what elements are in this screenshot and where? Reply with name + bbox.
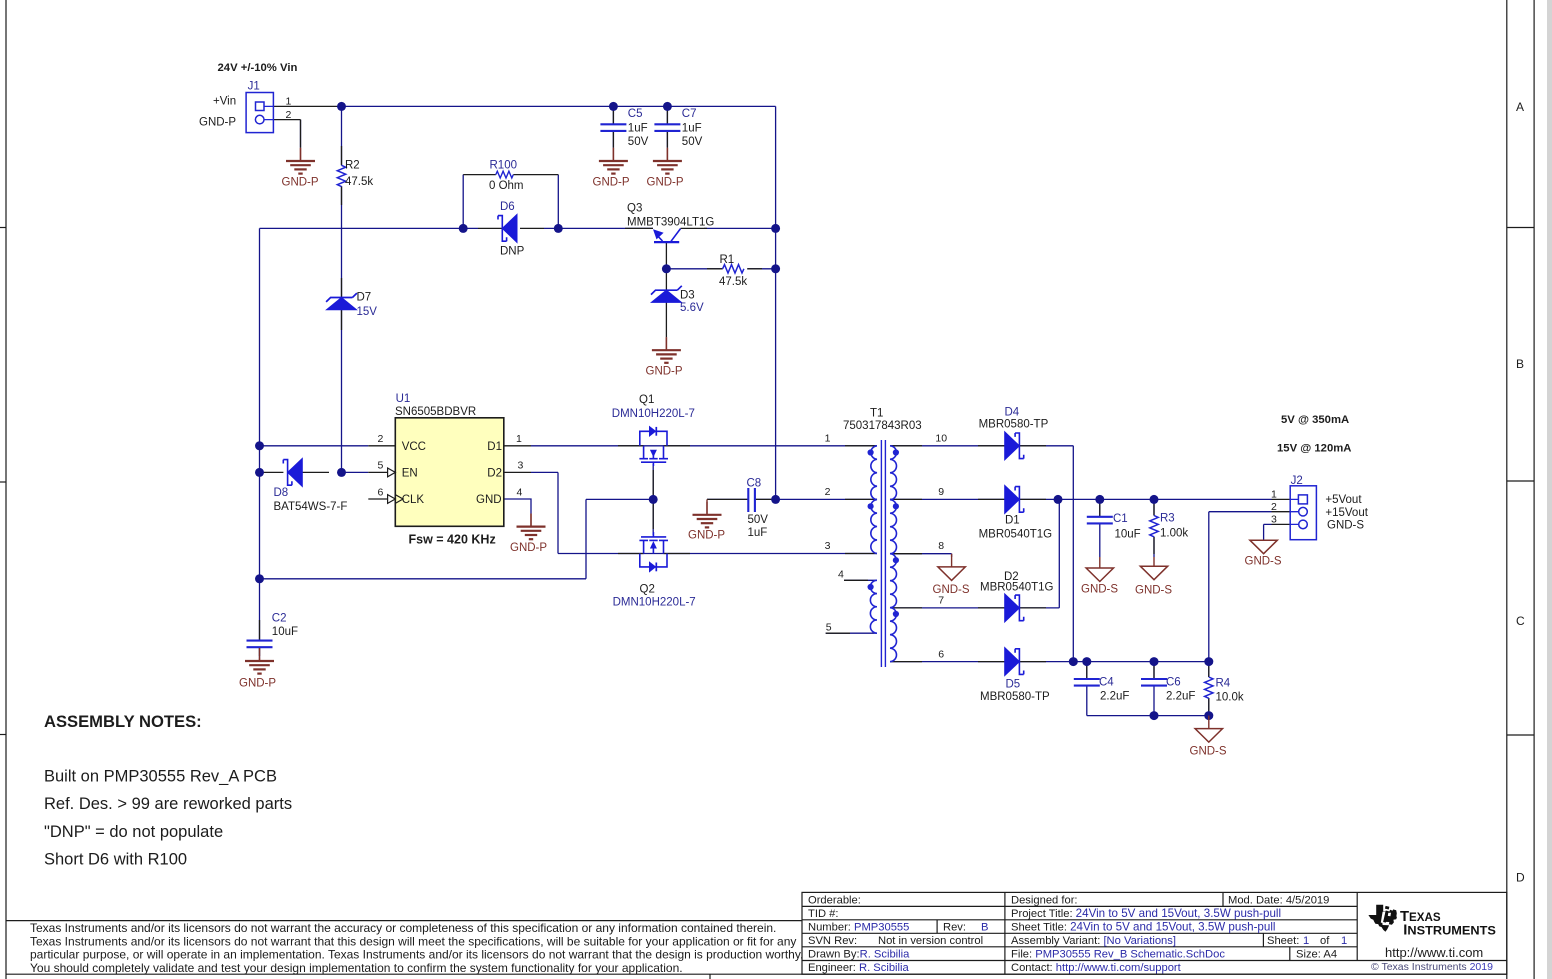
svg-text:Engineer: R. Scibilia: Engineer: R. Scibilia bbox=[808, 962, 910, 974]
svg-text:GND-P: GND-P bbox=[646, 366, 683, 378]
svg-text:Fsw = 420 KHz: Fsw = 420 KHz bbox=[409, 533, 496, 547]
svg-text:2: 2 bbox=[825, 486, 831, 498]
T1 primary winding 1-2-3 bbox=[871, 446, 877, 554]
junction R4 at 15V net bbox=[1204, 657, 1213, 666]
svg-text:1: 1 bbox=[1271, 488, 1277, 500]
svg-text:4: 4 bbox=[838, 569, 844, 581]
ground GND-P at J1 bbox=[282, 148, 319, 189]
svg-text:Contact: http://www.ti.com/sup: Contact: http://www.ti.com/support bbox=[1011, 962, 1182, 974]
svg-text:1.00k: 1.00k bbox=[1160, 528, 1188, 540]
svg-text:D5: D5 bbox=[1006, 679, 1021, 691]
svg-text:15V @ 120mA: 15V @ 120mA bbox=[1277, 442, 1351, 454]
svg-text:Number: PMP30555: Number: PMP30555 bbox=[808, 921, 909, 933]
wire C8 row to T1 pin2 bbox=[707, 498, 877, 500]
svg-text:GND-P: GND-P bbox=[593, 176, 630, 188]
svg-text:1: 1 bbox=[286, 96, 292, 108]
svg-text:MBR0580-TP: MBR0580-TP bbox=[979, 418, 1049, 430]
transformer T1 bbox=[870, 440, 896, 667]
row line 4 bbox=[802, 946, 1357, 948]
svg-text:particular purpose, or will op: particular purpose, or will operate in a… bbox=[30, 948, 803, 962]
svg-text:GND-P: GND-P bbox=[510, 542, 547, 554]
svg-text:8: 8 bbox=[938, 540, 944, 552]
svg-text:750317843R03: 750317843R03 bbox=[843, 420, 922, 432]
diode D6 (DNP) bbox=[498, 201, 525, 258]
wire C4 leads bbox=[1086, 662, 1088, 716]
pin J1-1 bbox=[273, 105, 341, 107]
svg-text:10uF: 10uF bbox=[1115, 529, 1141, 541]
junction Q3 collector at +24V rail bbox=[771, 224, 780, 233]
svg-text:3: 3 bbox=[825, 540, 831, 552]
capacitor C8 bbox=[747, 478, 769, 540]
Size cell divider bbox=[1289, 947, 1291, 961]
pin D2 leads bbox=[978, 607, 1046, 609]
svg-text:Q1: Q1 bbox=[639, 394, 654, 406]
transistor Q3 bbox=[627, 202, 714, 242]
svg-text:A: A bbox=[1516, 100, 1524, 114]
diode D1 bbox=[979, 485, 1053, 540]
pin U1 D2 bbox=[504, 471, 531, 473]
resistor R1 bbox=[719, 254, 747, 288]
right zone tick A/B bbox=[1507, 227, 1534, 229]
svg-text:3: 3 bbox=[1271, 514, 1277, 526]
wire D2 cathode riser bbox=[1019, 499, 1059, 608]
svg-text:7: 7 bbox=[938, 595, 944, 607]
svg-text:Built on PMP30555 Rev_A PCB: Built on PMP30555 Rev_A PCB bbox=[44, 768, 277, 786]
svg-text:5: 5 bbox=[826, 622, 832, 634]
left border line bbox=[5, 0, 7, 979]
svg-text:ASSEMBLY NOTES:: ASSEMBLY NOTES: bbox=[44, 712, 202, 731]
wire T1 pin5 stub bbox=[826, 632, 877, 634]
junction D4 riser at 15V net bbox=[1069, 657, 1078, 666]
svg-text:C4: C4 bbox=[1099, 677, 1114, 689]
row line 2 bbox=[802, 919, 1357, 921]
svg-text:GND-S: GND-S bbox=[1190, 745, 1227, 757]
zener diode D7 bbox=[326, 292, 377, 318]
junction D6 cathode/R100 bbox=[554, 224, 563, 233]
T1 primary winding 4-5 bbox=[870, 580, 877, 633]
MOSFET Q2 bbox=[639, 532, 668, 567]
ground GND-P at C8 bbox=[688, 499, 725, 541]
resistor R100 bbox=[489, 159, 524, 192]
svg-text:1uF: 1uF bbox=[628, 122, 648, 134]
svg-text:10.0k: 10.0k bbox=[1216, 691, 1244, 703]
black pin segments bbox=[260, 106, 1291, 712]
svg-text:BAT54WS-7-F: BAT54WS-7-F bbox=[274, 501, 348, 513]
pin R1 leads bbox=[707, 268, 762, 270]
svg-text:4: 4 bbox=[517, 486, 523, 498]
wire left rail bbox=[259, 228, 261, 640]
svg-text:C5: C5 bbox=[628, 108, 643, 120]
svg-text:Size: A4: Size: A4 bbox=[1296, 948, 1337, 960]
ground GND-S at C1 bbox=[1081, 557, 1118, 595]
svg-text:DNP: DNP bbox=[500, 246, 525, 258]
right zone tick B/C bbox=[1507, 480, 1534, 482]
svg-text:B: B bbox=[1516, 357, 1524, 371]
wire T1 pin6 to D5 bbox=[890, 661, 1005, 663]
svg-text:Designed for:: Designed for: bbox=[1011, 895, 1078, 907]
svg-text:SVN Rev:Not in version control: SVN Rev:Not in version control bbox=[808, 935, 983, 947]
bottom zone tick bbox=[709, 974, 711, 979]
svg-text:GND-S: GND-S bbox=[1135, 584, 1172, 596]
wire T1 pin8 to gnd bbox=[890, 554, 952, 557]
wire R100 loop verticals bbox=[463, 175, 558, 229]
svg-text:50V: 50V bbox=[748, 514, 769, 526]
right zone column outer line bbox=[1533, 0, 1535, 979]
svg-text:Short D6 with R100: Short D6 with R100 bbox=[44, 851, 187, 869]
svg-text:U1: U1 bbox=[396, 393, 411, 405]
svg-text:GND-P: GND-P bbox=[239, 677, 276, 689]
capacitor C6 bbox=[1141, 677, 1195, 703]
pin T1 right pins bbox=[890, 446, 922, 662]
pin C7 leads bbox=[666, 110, 668, 148]
resistor R2 bbox=[337, 160, 373, 189]
svg-text:D1: D1 bbox=[487, 441, 502, 453]
black italic i dot of bug bbox=[1385, 906, 1389, 910]
wire C7 leads bbox=[666, 106, 668, 147]
svg-text:1: 1 bbox=[516, 433, 522, 445]
right zone tick C/D bbox=[1507, 734, 1534, 736]
junction C5 at +24V bus bbox=[609, 102, 618, 111]
wire D2 net bbox=[531, 472, 877, 553]
diode D4 bbox=[979, 406, 1049, 460]
svg-text:10: 10 bbox=[935, 433, 947, 445]
wire EN row bbox=[342, 471, 369, 473]
wire D1 cathode to J2 pin1 bbox=[1019, 498, 1271, 500]
svg-text:GND-S: GND-S bbox=[1081, 583, 1118, 595]
TI logo bug bbox=[1368, 905, 1397, 932]
left zone tick A/B bbox=[0, 227, 6, 229]
wire J2 pin3 gnd bbox=[1264, 524, 1272, 540]
svg-text:9: 9 bbox=[938, 486, 944, 498]
junction C1 at 5V net bbox=[1095, 495, 1104, 504]
pin D8 leads bbox=[260, 471, 330, 473]
connector J1 bbox=[199, 81, 292, 133]
svg-text:CLK: CLK bbox=[402, 494, 425, 506]
svg-text:R4: R4 bbox=[1216, 677, 1231, 689]
svg-text:Mod. Date: 4/5/2019: Mod. Date: 4/5/2019 bbox=[1228, 895, 1329, 907]
MOSFET Q1 bbox=[639, 431, 668, 466]
pin Q1 leads bbox=[618, 445, 690, 447]
Rev cell divider bbox=[936, 920, 938, 934]
junction D2 riser at 5V net bbox=[1054, 495, 1063, 504]
svg-text:SN6505BDBVR: SN6505BDBVR bbox=[395, 406, 476, 418]
wire C5 leads bbox=[612, 106, 614, 147]
pin D4 leads bbox=[978, 445, 1046, 447]
wire C6 leads bbox=[1153, 662, 1155, 716]
junction C4 at 15V net bbox=[1082, 657, 1091, 666]
svg-text:+15Vout: +15Vout bbox=[1325, 507, 1368, 519]
svg-text:DMN10H220L-7: DMN10H220L-7 bbox=[612, 408, 695, 420]
pin D5 leads bbox=[978, 661, 1046, 663]
pin J2 pins bbox=[1272, 499, 1291, 524]
wire Q3 collector to rail bbox=[704, 227, 776, 229]
T1 core lines bbox=[881, 440, 885, 667]
pin D6 leads bbox=[478, 227, 544, 229]
svg-text:EN: EN bbox=[402, 467, 418, 479]
capacitor C2 bbox=[247, 612, 299, 647]
T1 polarity dots bbox=[868, 449, 874, 455]
white t bowl of bug bbox=[1382, 922, 1389, 926]
row line 3 bbox=[802, 932, 1357, 934]
svg-text:2.2uF: 2.2uF bbox=[1100, 690, 1129, 702]
svg-text:+5Vout: +5Vout bbox=[1325, 494, 1362, 506]
junction VCC row at left rail bbox=[255, 441, 264, 450]
pin D3 leads and Q3 base lead bbox=[665, 242, 667, 337]
svg-text:GND-P: GND-P bbox=[647, 176, 684, 188]
svg-text:1uF: 1uF bbox=[682, 122, 702, 134]
disclaimer top line bbox=[6, 920, 802, 922]
svg-text:C: C bbox=[1516, 614, 1525, 628]
svg-text:10uF: 10uF bbox=[272, 626, 298, 638]
svg-text:5.6V: 5.6V bbox=[680, 302, 704, 314]
wire gate net bbox=[260, 464, 654, 579]
svg-text:Orderable:: Orderable: bbox=[808, 895, 861, 907]
svg-text:C6: C6 bbox=[1166, 677, 1181, 689]
svg-text:D3: D3 bbox=[680, 289, 695, 301]
Mod Date cell divider bbox=[1222, 892, 1224, 906]
pin Q1/Q2 gate leads bbox=[652, 470, 654, 529]
page edge gray strip bbox=[1547, 0, 1552, 979]
pin Q2 leads bbox=[618, 553, 690, 555]
wire emitter/D6 row bbox=[260, 227, 654, 229]
ground GND-P at C2 bbox=[239, 648, 276, 689]
svg-text:D4: D4 bbox=[1005, 406, 1020, 418]
diode D5 bbox=[980, 648, 1050, 703]
ground GND-P at C7 bbox=[647, 148, 684, 189]
svg-text:GND-S: GND-S bbox=[933, 584, 970, 596]
svg-text:D: D bbox=[1516, 871, 1525, 885]
ground GND-P at C5 bbox=[593, 148, 630, 189]
wire J1 pin2 to gnd bbox=[300, 120, 302, 148]
right zone column inner line bbox=[1506, 0, 1508, 979]
wire C1 leads bbox=[1099, 499, 1101, 557]
svg-text:3: 3 bbox=[518, 460, 524, 472]
pin T1 left pins bbox=[826, 446, 877, 633]
black italic i stem of bug bbox=[1383, 911, 1388, 923]
svg-text:J2: J2 bbox=[1291, 475, 1303, 487]
wire C2 leads bbox=[259, 647, 261, 658]
CLK input triangle + clock mark bbox=[388, 495, 396, 504]
svg-text:2: 2 bbox=[286, 109, 292, 121]
left zone tick B/C bbox=[0, 481, 6, 483]
wire T1 pin10 to D4 bbox=[890, 445, 1005, 447]
svg-text:MBR0540T1G: MBR0540T1G bbox=[979, 529, 1053, 541]
svg-text:Q2: Q2 bbox=[640, 584, 655, 596]
svg-text:VCC: VCC bbox=[402, 441, 426, 453]
svg-text:MBR0540T1G: MBR0540T1G bbox=[980, 581, 1054, 593]
wire VCC row bbox=[260, 445, 369, 447]
pin C2 leads bbox=[259, 620, 261, 656]
Sheet cell divider bbox=[1262, 933, 1264, 947]
svg-text:R100: R100 bbox=[490, 159, 518, 171]
junction R1 at +24V rail bbox=[771, 264, 780, 273]
pin U1 D1 bbox=[504, 445, 531, 447]
junction EN row at left rail bbox=[255, 468, 264, 477]
svg-text:5V @ 350mA: 5V @ 350mA bbox=[1281, 414, 1349, 426]
TI logo cell divider bbox=[1356, 892, 1358, 960]
svg-text:Texas Instruments and/or its l: Texas Instruments and/or its licensors d… bbox=[30, 921, 776, 935]
wire R1 row base to rail bbox=[666, 268, 775, 270]
svg-text:Project Title: 24Vin to 5V and: Project Title: 24Vin to 5V and 15Vout, 3… bbox=[1011, 907, 1281, 920]
wire R2/D7 chain bbox=[341, 106, 343, 472]
svg-text:R2: R2 bbox=[345, 160, 360, 172]
row line 1 bbox=[802, 905, 1357, 907]
bottom frame line bbox=[6, 973, 1507, 975]
svg-text:Texas Instruments and/or its l: Texas Instruments and/or its licensors d… bbox=[30, 934, 796, 948]
EN input triangle bbox=[388, 468, 396, 477]
svg-text:6: 6 bbox=[378, 486, 384, 498]
ground GND-S at J2 bbox=[1245, 540, 1282, 567]
diode D2 bbox=[980, 571, 1054, 622]
svg-text:2: 2 bbox=[378, 433, 384, 445]
pin C1 top bbox=[1099, 503, 1101, 517]
svg-text:Drawn By:R. Scibilia: Drawn By:R. Scibilia bbox=[808, 948, 910, 960]
junction Q1/Q2 gates bbox=[649, 495, 658, 504]
svg-text:D6: D6 bbox=[500, 201, 515, 213]
svg-text:Assembly Variant: [No Variatio: Assembly Variant: [No Variations] bbox=[1011, 935, 1176, 947]
title block outline bbox=[802, 892, 1507, 974]
junction C7 at +24V bus bbox=[663, 102, 672, 111]
capacitor C7 bbox=[654, 108, 702, 148]
svg-text:MMBT3904LT1G: MMBT3904LT1G bbox=[627, 216, 714, 228]
svg-text:J1: J1 bbox=[248, 81, 260, 93]
svg-text:1: 1 bbox=[825, 433, 831, 445]
ground GND-S at T1 pin8 bbox=[933, 554, 970, 596]
resistor R4 bbox=[1205, 677, 1244, 703]
svg-text:D1: D1 bbox=[1005, 515, 1020, 527]
pin D7 leads bbox=[341, 278, 343, 330]
svg-text:TID #:: TID #: bbox=[808, 908, 838, 920]
svg-text:15V: 15V bbox=[357, 306, 378, 318]
junction R2/D7 at EN row bbox=[337, 468, 346, 477]
svg-text:MBR0580-TP: MBR0580-TP bbox=[980, 691, 1050, 703]
svg-text:D7: D7 bbox=[357, 292, 372, 304]
svg-text:DMN10H220L-7: DMN10H220L-7 bbox=[613, 597, 696, 609]
capacitor C4 bbox=[1074, 677, 1130, 703]
pin U1 CLK bbox=[368, 498, 387, 500]
pin C4/C6/R4 bbox=[1087, 665, 1209, 712]
wire D5 cathode row bbox=[1019, 661, 1208, 663]
svg-text:C8: C8 bbox=[747, 478, 762, 490]
svg-text:INSTRUMENTS: INSTRUMENTS bbox=[1403, 922, 1496, 938]
svg-text:C7: C7 bbox=[682, 108, 697, 120]
pin R2 top/bottom bbox=[341, 146, 343, 205]
junction C2 at left rail bbox=[255, 574, 264, 583]
pin R3 leads bbox=[1153, 503, 1155, 554]
pin C8 leads bbox=[707, 498, 772, 500]
pin R100 horizontal leads bbox=[463, 174, 558, 176]
zener diode D3 bbox=[651, 286, 704, 314]
svg-text:2.2uF: 2.2uF bbox=[1166, 690, 1195, 702]
wire +15V riser to J2 pin2 bbox=[1209, 512, 1272, 662]
junction dots group bbox=[255, 102, 1213, 720]
white t stem slash of bug bbox=[1381, 912, 1386, 923]
svg-text:© Texas Instruments 2019: © Texas Instruments 2019 bbox=[1371, 961, 1493, 973]
main column divider bbox=[1004, 892, 1006, 974]
svg-text:T1: T1 bbox=[870, 408, 883, 420]
junction R3 at 5V net bbox=[1150, 495, 1159, 504]
svg-text:GND-S: GND-S bbox=[1245, 555, 1282, 567]
svg-text:GND-S: GND-S bbox=[1327, 520, 1364, 532]
svg-text:+Vin: +Vin bbox=[213, 95, 236, 107]
svg-text:0 Ohm: 0 Ohm bbox=[489, 180, 524, 192]
svg-text:C2: C2 bbox=[272, 612, 287, 624]
svg-text:D2: D2 bbox=[487, 467, 502, 479]
T1 secondary windings bbox=[890, 446, 896, 662]
svg-text:D8: D8 bbox=[274, 487, 289, 499]
wire U1 gnd bbox=[504, 499, 531, 514]
svg-text:GND-P: GND-P bbox=[199, 116, 236, 128]
pin D1 leads bbox=[978, 498, 1046, 500]
svg-text:R1: R1 bbox=[720, 254, 735, 266]
wire R3 leads bbox=[1153, 499, 1155, 557]
svg-text:1uF: 1uF bbox=[748, 527, 768, 539]
junction J1/R2 at +24V bus bbox=[337, 102, 346, 111]
ground GND-S at R3 bbox=[1135, 557, 1172, 596]
pin C5 leads bbox=[612, 110, 614, 148]
ground GND-S at R4 bbox=[1190, 716, 1227, 758]
wire R4 leads bbox=[1208, 662, 1210, 716]
junction Q3 base/R1/D3 bbox=[662, 264, 671, 273]
row line 5 bbox=[802, 960, 1507, 962]
pin U1 VCC bbox=[368, 445, 395, 447]
connector J2 bbox=[1271, 475, 1369, 540]
junction D6 anode/R100 bbox=[459, 224, 468, 233]
left zone tick C/D bbox=[0, 734, 6, 736]
wire +24V right rail bbox=[775, 106, 777, 499]
svg-text:2: 2 bbox=[1271, 501, 1277, 513]
IC U1 SN6505BDBVR bbox=[378, 393, 524, 547]
svg-text:47.5k: 47.5k bbox=[345, 176, 373, 188]
svg-text:File: PMP30555 Rev_B Schematic: File: PMP30555 Rev_B Schematic.SchDoc bbox=[1011, 948, 1225, 960]
svg-text:R3: R3 bbox=[1160, 513, 1175, 525]
ground GND-P at U1 bbox=[510, 514, 547, 555]
svg-text:24V +/-10% Vin: 24V +/-10% Vin bbox=[218, 62, 298, 74]
wire T1 pin4 stub bbox=[844, 579, 877, 581]
wire +24V top bus bbox=[342, 105, 776, 107]
svg-text:"DNP" = do not populate: "DNP" = do not populate bbox=[44, 823, 223, 841]
resistor R3 bbox=[1150, 513, 1189, 540]
capacitor C1 bbox=[1087, 513, 1141, 541]
pin J1-2 bbox=[273, 120, 300, 148]
wire D4 cathode to riser bbox=[1019, 446, 1073, 662]
pin Q3 emitter side bbox=[625, 227, 653, 229]
wire T1 pin9 to D1 bbox=[890, 498, 1005, 500]
junction C6 at output gnd rail bbox=[1150, 711, 1159, 720]
pin Q3 collector bbox=[681, 227, 708, 229]
wire output bottom rail bbox=[1087, 715, 1209, 717]
wire D1 net row bbox=[531, 445, 877, 447]
wire T1 pin7 to D2 bbox=[890, 607, 1005, 609]
junction C8/T1 pin2 at rail bbox=[771, 495, 780, 504]
junction R4 at output gnd rail bbox=[1204, 711, 1213, 720]
svg-text:50V: 50V bbox=[628, 136, 649, 148]
svg-text:C1: C1 bbox=[1113, 513, 1128, 525]
ground GND-P at D3 bbox=[646, 337, 683, 377]
svg-text:You should completely validate: You should completely validate and test … bbox=[30, 961, 683, 975]
pin U1 EN bbox=[368, 471, 387, 473]
svg-text:http://www.ti.com: http://www.ti.com bbox=[1385, 945, 1483, 960]
svg-text:Sheet Title: 24Vin to 5V and 1: Sheet Title: 24Vin to 5V and 15Vout, 3.5… bbox=[1011, 920, 1275, 933]
junction C6 at 15V net bbox=[1150, 657, 1159, 666]
svg-text:Rev:B: Rev:B bbox=[943, 921, 988, 933]
diode D8 bbox=[274, 458, 348, 513]
svg-text:GND-P: GND-P bbox=[688, 530, 725, 542]
svg-text:Ref. Des. > 99 are reworked pa: Ref. Des. > 99 are reworked parts bbox=[44, 795, 292, 813]
svg-text:GND-P: GND-P bbox=[282, 176, 319, 188]
svg-text:47.5k: 47.5k bbox=[719, 276, 747, 288]
svg-text:6: 6 bbox=[938, 649, 944, 661]
